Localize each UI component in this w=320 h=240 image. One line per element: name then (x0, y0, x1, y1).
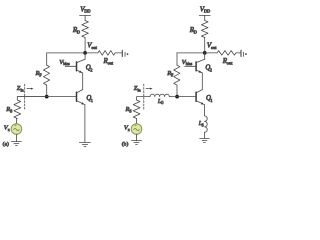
svg-text:1: 1 (210, 98, 212, 103)
transistor Q1 fig a (76, 92, 78, 101)
svg-text:G: G (161, 101, 164, 105)
inductor L_g fig b (150, 94, 169, 96)
svg-text:out: out (108, 61, 114, 66)
svg-text:2: 2 (90, 68, 92, 73)
svg-text:+: + (134, 123, 137, 129)
wire R_s to source fig a (16, 119, 18, 124)
svg-text:out: out (91, 45, 97, 50)
resistor R_D fig a (82, 21, 89, 38)
svg-text:x: x (128, 127, 130, 132)
resistor R_out fig b (217, 51, 236, 56)
wire L_g to node fig b (169, 96, 177, 98)
wire R_out to load fig a (115, 52, 122, 54)
ground under V_x fig b (132, 140, 142, 142)
transistor Q1 fig b (195, 92, 197, 101)
wire R_out to load fig b (236, 52, 241, 54)
svg-text:+: + (14, 123, 17, 129)
svg-text:out: out (211, 45, 217, 50)
wire input corner fig a (17, 97, 46, 100)
svg-text:(b): (b) (122, 141, 129, 148)
arrow Z_in fig a (27, 88, 32, 90)
resistor R_F fig a (43, 65, 49, 85)
svg-text:x: x (8, 127, 10, 132)
svg-text:2: 2 (210, 68, 212, 73)
dashed reference line Z_in fig b (143, 84, 145, 110)
arrow Z_in fig b (146, 88, 151, 90)
resistor R_F fig b (174, 65, 180, 85)
wire Q2 emitter to Q1 collector fig a (82, 73, 84, 90)
wire source to ground fig a (15, 134, 17, 141)
resistor R_s fig a (14, 100, 21, 119)
wire V_DD to R_D fig b (204, 15, 206, 20)
svg-text:out: out (227, 61, 233, 66)
resistor R_D fig b (201, 21, 208, 38)
wire V_out rail fig b (177, 52, 217, 54)
wire Q2 emitter to Q1 collector fig b (201, 73, 203, 90)
resistor R_out fig a (98, 51, 115, 56)
ground under V_x fig a (11, 141, 21, 143)
V_DD supply bar fig b (199, 14, 210, 16)
svg-text:D: D (194, 30, 197, 35)
wire Q1 emitter to ground fig a (84, 105, 86, 142)
wire L_s to ground fig b (204, 132, 206, 138)
wire input node to Q1 base fig a (17, 96, 76, 98)
wire input corner fig b (137, 97, 150, 100)
wire R_F to input node fig a (46, 85, 48, 97)
node input fig b (175, 95, 179, 99)
svg-text:in: in (138, 87, 141, 92)
source V_x fig a (11, 124, 22, 135)
wire V_out rail fig a (47, 52, 98, 54)
transistor Q2 fig a (76, 62, 78, 71)
wire V_DD to R_D fig a (84, 15, 86, 20)
wire R_F to input node fig b (176, 85, 178, 97)
source V_x fig b (131, 124, 142, 135)
node input fig a (45, 95, 49, 99)
svg-text:S: S (129, 108, 131, 113)
transistor Q2 fig b (195, 62, 197, 71)
svg-text:bias: bias (186, 61, 193, 66)
inductor L_s fig b (205, 116, 208, 132)
svg-text:DD: DD (84, 9, 90, 14)
wire feedback corner fig a (46, 53, 48, 65)
ground under L_s fig b (200, 138, 210, 140)
wire R_D to V_out node fig a (84, 38, 86, 53)
svg-text:D: D (77, 30, 80, 35)
wire Q1 emitter to L_s fig b (204, 105, 206, 116)
load terminal fig b (240, 50, 242, 56)
svg-text:F: F (39, 73, 42, 78)
wire R_s to source fig b (136, 119, 138, 124)
wire R_D to V_out node fig b (204, 38, 206, 53)
dashed reference line Z_in fig a (24, 84, 26, 110)
svg-text:(a): (a) (3, 141, 9, 148)
svg-text:S: S (202, 123, 204, 127)
resistor R_s fig b (133, 100, 140, 119)
wire feedback corner fig b (176, 53, 178, 65)
node V_out fig a (83, 51, 87, 55)
svg-text:DD: DD (204, 9, 210, 14)
node V_out fig b (203, 51, 207, 55)
wire source to ground fig b (136, 134, 138, 141)
wire input node to Q1 base fig b (177, 96, 196, 98)
svg-text:in: in (21, 87, 24, 92)
ground under Q1 fig a (79, 142, 90, 144)
svg-text:1: 1 (91, 98, 93, 103)
V_DD supply bar fig a (80, 14, 91, 16)
svg-text:S: S (10, 108, 12, 113)
svg-text:bias: bias (63, 61, 70, 66)
load terminal fig a (121, 50, 123, 56)
